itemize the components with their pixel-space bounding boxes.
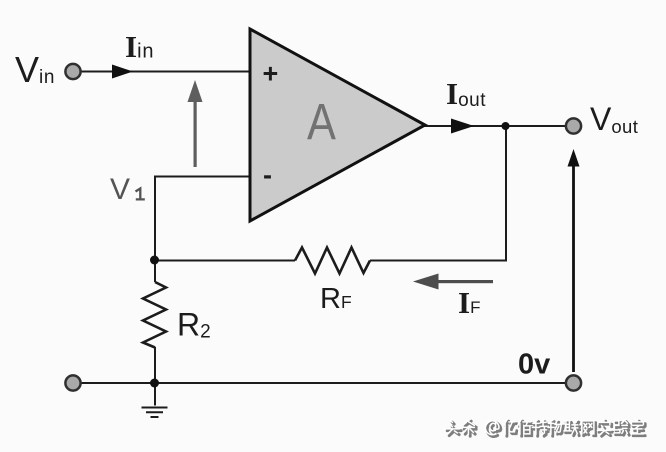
svg-text:-: -	[263, 160, 272, 190]
wire 0v bottom rail	[81, 382, 566, 384]
node junction at output	[502, 122, 510, 130]
wire V1 vertical down to node	[154, 176, 156, 262]
node ground junction	[150, 379, 159, 388]
arrow Iout on output wire	[451, 119, 474, 134]
watermark highlight pass	[445, 419, 643, 434]
wire op-amp output to Vout terminal	[424, 125, 566, 127]
wire R2 bottom to ground rail	[154, 347, 156, 384]
svg-text:0v: 0v	[518, 349, 550, 381]
terminal Vout	[566, 118, 581, 133]
arrow Iin on input wire	[112, 65, 133, 79]
op-amp U1	[250, 29, 425, 221]
arrow V1 node voltage (gray, up)	[188, 80, 203, 167]
node V1 junction	[150, 256, 159, 265]
watermark shadow pass	[447, 421, 645, 436]
wire feedback vertical from output junction down	[505, 126, 507, 262]
svg-text:V: V	[110, 173, 130, 206]
ground	[142, 408, 168, 418]
arrow IF feedback current	[413, 274, 493, 290]
wire Vin terminal to op-amp + input	[81, 71, 250, 73]
wire op-amp - input horizontal from node V1	[154, 176, 250, 178]
wire feedback horizontal right of RF	[370, 260, 507, 262]
svg-text:+: +	[263, 59, 279, 89]
arrow Vout voltage measure (black, up)	[568, 149, 580, 372]
resistor R2 zigzag	[143, 282, 166, 348]
wire feedback horizontal left of RF to node	[154, 260, 295, 262]
wire node down to R2 top	[154, 260, 156, 283]
terminal 0v left	[65, 375, 80, 390]
svg-text:A: A	[307, 94, 336, 151]
resistor RF zigzag	[295, 248, 370, 274]
terminal 0v right	[566, 375, 581, 390]
wire ground stub	[154, 383, 156, 406]
terminal Vin	[65, 64, 80, 79]
